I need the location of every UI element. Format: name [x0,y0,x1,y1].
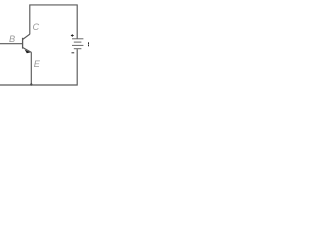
transistor Q1 emitter diagonal [23,48,32,53]
battery V1 plate long (top, +) [72,38,83,40]
battery V1 plate short (bottom, -) [74,48,82,50]
svg-text:B: B [9,34,15,44]
wire: bottom rail (cut at left edge), right wire up to battery - [0,49,77,85]
battery minus sign [72,52,75,54]
wire: emitter lead down to bottom wire [30,52,32,85]
svg-text:C: C [33,22,40,32]
wire: base lead [0,43,22,45]
wire: collector lead up, top wire, right wire down to battery + [30,5,77,39]
battery V1 plate short [74,41,82,43]
cut-off label at right edge [88,42,89,44]
transistor Q1 collector diagonal [23,34,30,39]
svg-text:E: E [34,59,41,69]
junction dot at emitter/bottom rail [30,83,32,85]
transistor Q1 base bar [22,38,24,49]
battery plus sign [71,34,74,36]
battery V1 plate long [72,44,83,46]
background [0,0,89,89]
transistor Q1 emitter arrowhead [25,50,31,54]
